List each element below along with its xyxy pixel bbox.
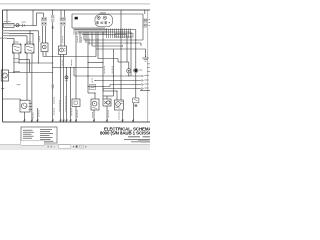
- svg-text:8000 (S/N 8AUB 1 SCISSO: 8000 (S/N 8AUB 1 SCISSO: [100, 131, 150, 136]
